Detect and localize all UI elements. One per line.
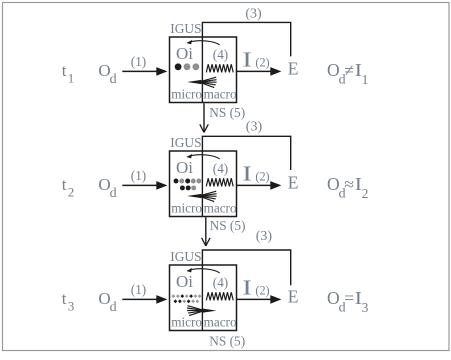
svg-text:=: = [344, 288, 354, 308]
node Od (observed data) [98, 289, 116, 315]
arrow (1) Od to IGUS [122, 67, 167, 76]
node Od (observed data) [98, 175, 116, 201]
svg-text:(2): (2) [255, 284, 269, 298]
svg-text:3: 3 [68, 298, 75, 313]
svg-text:macro: macro [204, 201, 237, 216]
svg-text:I: I [242, 47, 252, 71]
svg-text:IGUS: IGUS [170, 21, 201, 36]
curved arrow (4) to Oi [186, 40, 219, 45]
divider micro/macro [201, 151, 203, 217]
svg-text:E: E [288, 59, 299, 79]
svg-text:macro: macro [204, 315, 237, 330]
feedback wire (3) E to IGUS [202, 22, 290, 56]
label t1 [62, 61, 75, 85]
equation Od 2 [327, 174, 354, 201]
divider micro/macro [201, 37, 203, 103]
svg-text:(3): (3) [245, 6, 262, 21]
fan arrow macro to micro [187, 191, 217, 201]
node Od (observed data) [98, 61, 116, 87]
svg-text:(3): (3) [246, 120, 263, 135]
svg-text:(4): (4) [213, 161, 228, 176]
svg-text:t: t [62, 175, 67, 194]
label t3 [62, 289, 75, 313]
zigzag (macro process) [206, 292, 233, 300]
svg-text:E: E [288, 173, 299, 193]
svg-text:Oi: Oi [176, 44, 193, 63]
svg-text:Oi: Oi [176, 158, 193, 177]
svg-text:micro: micro [171, 315, 202, 330]
svg-text:1: 1 [68, 70, 75, 85]
curved arrow (4) to Oi [186, 268, 219, 273]
svg-text:NS (5): NS (5) [210, 218, 246, 233]
NS arrow row2 to row3 [202, 217, 211, 246]
svg-text:(1): (1) [131, 168, 146, 183]
arrow (2) IGUS to E [237, 67, 282, 76]
svg-text:d: d [110, 72, 117, 87]
svg-text:≠: ≠ [344, 60, 354, 80]
svg-text:macro: macro [204, 87, 237, 102]
svg-text:IGUS: IGUS [170, 135, 201, 150]
svg-text:2: 2 [362, 186, 369, 201]
svg-text:micro: micro [171, 201, 202, 216]
equation Od 1 [327, 60, 354, 87]
svg-text:2: 2 [68, 184, 75, 199]
dots in Oi (micro states) [175, 63, 200, 70]
svg-text:NS (5): NS (5) [209, 333, 245, 348]
NS arrow row1 to row2 [200, 103, 209, 132]
equation Od 3 [327, 288, 354, 315]
feedback wire (3) E to IGUS [202, 250, 290, 285]
svg-text:1: 1 [362, 72, 369, 87]
svg-text:I: I [242, 275, 252, 299]
svg-text:(4): (4) [213, 275, 228, 290]
svg-text:NS (5): NS (5) [209, 105, 245, 120]
svg-text:I: I [242, 161, 252, 185]
svg-text:t: t [62, 289, 67, 308]
svg-text:(1): (1) [131, 54, 146, 69]
svg-text:≈: ≈ [344, 174, 354, 194]
dots in Oi (micro states) [174, 179, 202, 191]
arrow (2) IGUS to E [237, 181, 282, 190]
svg-text:IGUS: IGUS [170, 249, 201, 264]
svg-text:micro: micro [171, 87, 202, 102]
svg-text:Oi: Oi [176, 272, 193, 291]
dots in Oi (micro states) [171, 294, 201, 303]
svg-text:(4): (4) [213, 47, 228, 62]
svg-text:(2): (2) [255, 170, 269, 184]
zigzag (macro process) [206, 64, 233, 72]
arrow (2) IGUS to E [237, 295, 282, 304]
node I [242, 275, 252, 299]
curved arrow (4) to Oi [186, 154, 219, 159]
svg-text:(2): (2) [255, 56, 269, 70]
fan arrow micro to macro [187, 306, 217, 316]
svg-text:E: E [288, 287, 299, 307]
arrow (1) Od to IGUS [122, 295, 167, 304]
node I [242, 47, 252, 71]
fan arrow macro to micro [187, 77, 217, 87]
svg-text:(1): (1) [131, 282, 146, 297]
svg-text:3: 3 [362, 300, 369, 315]
zigzag (macro process) [206, 178, 233, 186]
svg-text:d: d [110, 300, 117, 315]
svg-text:(3): (3) [256, 229, 273, 244]
svg-text:t: t [62, 61, 67, 80]
IGUS box row 1 [170, 37, 237, 103]
IGUS box row 2 [170, 151, 237, 217]
label t2 [62, 175, 75, 199]
node I [242, 161, 252, 185]
svg-text:d: d [110, 186, 117, 201]
feedback wire (3) E to IGUS [202, 136, 290, 170]
arrow (1) Od to IGUS [122, 181, 167, 190]
divider micro/macro [201, 265, 203, 331]
IGUS box row 3 [170, 265, 237, 331]
